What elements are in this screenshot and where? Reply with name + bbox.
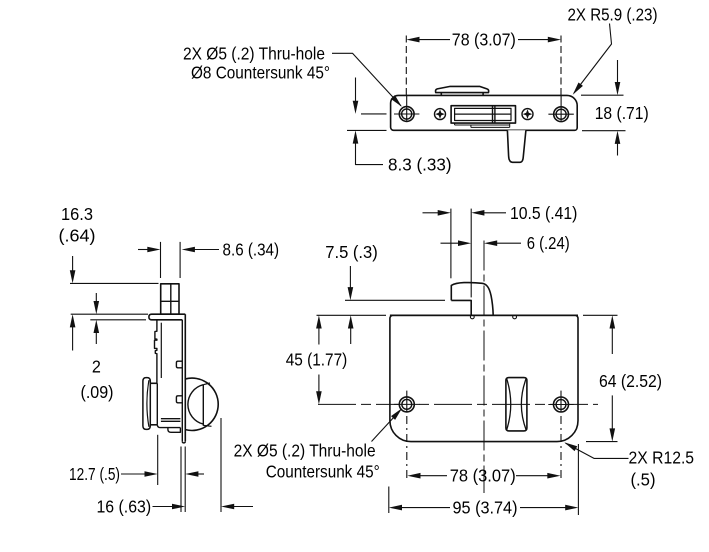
svg-text:12.7 (.5): 12.7 (.5) xyxy=(69,464,120,484)
svg-text:(.5): (.5) xyxy=(631,470,656,490)
svg-text:95 (3.74): 95 (3.74) xyxy=(453,498,518,518)
svg-text:78 (3.07): 78 (3.07) xyxy=(450,466,516,486)
svg-text:Countersunk 45°: Countersunk 45° xyxy=(266,462,380,482)
svg-text:45 (1.77): 45 (1.77) xyxy=(286,350,348,370)
svg-text:2X Ø5 (.2) Thru-hole: 2X Ø5 (.2) Thru-hole xyxy=(183,43,325,63)
svg-text:64 (2.52): 64 (2.52) xyxy=(599,371,662,391)
svg-text:18 (.71): 18 (.71) xyxy=(595,103,649,123)
svg-text:7.5 (.3): 7.5 (.3) xyxy=(325,242,378,262)
svg-text:2X R12.5: 2X R12.5 xyxy=(629,448,695,468)
svg-text:Ø8 Countersunk 45°: Ø8 Countersunk 45° xyxy=(191,63,330,83)
svg-text:2X Ø5 (.2) Thru-hole: 2X Ø5 (.2) Thru-hole xyxy=(234,441,376,461)
svg-text:78 (3.07): 78 (3.07) xyxy=(452,30,516,50)
svg-text:(.09): (.09) xyxy=(81,382,114,402)
svg-text:8.3 (.33): 8.3 (.33) xyxy=(388,155,452,175)
svg-text:6 (.24): 6 (.24) xyxy=(527,233,570,253)
svg-text:10.5 (.41): 10.5 (.41) xyxy=(510,203,578,223)
svg-text:16 (.63): 16 (.63) xyxy=(96,497,151,517)
svg-text:16.3: 16.3 xyxy=(61,204,93,224)
svg-text:(.64): (.64) xyxy=(59,226,96,246)
svg-text:2X R5.9 (.23): 2X R5.9 (.23) xyxy=(568,5,658,25)
svg-text:8.6 (.34): 8.6 (.34) xyxy=(223,240,280,260)
svg-text:2: 2 xyxy=(92,357,101,377)
